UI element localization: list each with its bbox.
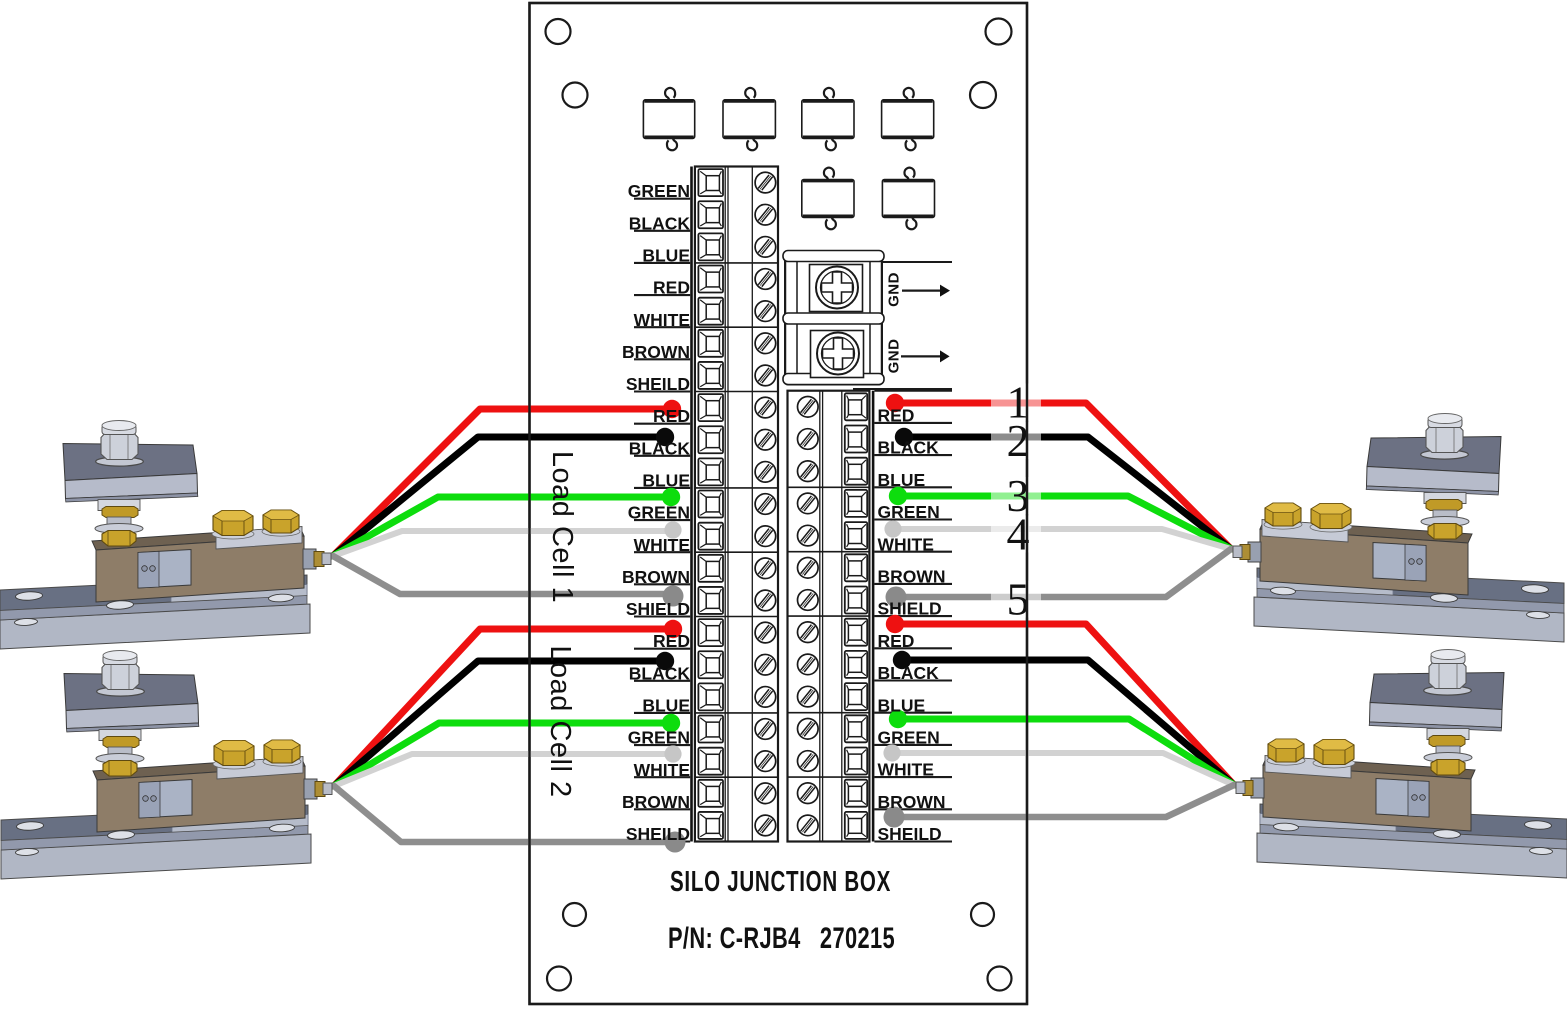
svg-text:BROWN: BROWN [622, 792, 690, 812]
svg-text:RED: RED [653, 631, 690, 651]
node 3 (wire number label) [991, 470, 1041, 521]
wire LC3 red (right) [886, 394, 1231, 549]
label leader lines (right) [874, 391, 952, 842]
terminal TB2-12 (WHITE) [798, 748, 868, 775]
cable gland G5 [802, 168, 854, 230]
wire LC4 black (right) [893, 651, 1234, 785]
mounting hole (bottom-left inner) [563, 903, 586, 926]
terminal TB1-8 (RED) [698, 394, 775, 421]
label Load Cell 1 [546, 451, 578, 603]
svg-text:SHEILD: SHEILD [878, 824, 942, 844]
svg-text:BLACK: BLACK [629, 438, 691, 458]
terminal TB1-5 (WHITE) [698, 298, 775, 325]
terminal TB2-7 (SHIELD) [798, 587, 868, 614]
wire LC2 white (left) [334, 745, 682, 786]
label column bar (left) [690, 167, 693, 842]
svg-text:BROWN: BROWN [622, 342, 690, 362]
wire LC4 red (right) [886, 615, 1234, 785]
mounting hole (top-left outer) [546, 19, 571, 44]
cable gland G3 [802, 88, 854, 150]
node 5 (wire number label) [991, 574, 1041, 625]
node 4 (wire number label) [991, 509, 1041, 560]
wire LC1 white (left) [333, 521, 682, 556]
wire LC1 black (left) [333, 428, 674, 556]
svg-text:SILO JUNCTION BOX: SILO JUNCTION BOX [670, 866, 891, 898]
svg-text:SHEILD: SHEILD [626, 824, 690, 844]
terminal TB1-4 (RED) [698, 266, 775, 293]
label GND (upper earth terminal) [886, 272, 903, 307]
cable gland G2 [723, 88, 775, 150]
svg-text:GND: GND [886, 272, 903, 307]
wire LC3 white (right) [884, 520, 1231, 549]
terminal TB1-15 (RED) [698, 619, 775, 646]
label Load Cell 2 [544, 645, 576, 797]
terminal TB1-21 (SHEILD) [698, 812, 775, 839]
svg-text:GREEN: GREEN [878, 728, 940, 748]
terminal TB2-3 (BLUE) [798, 458, 868, 485]
terminal TB1-10 (BLUE) [698, 458, 775, 485]
terminal TB1-20 (BROWN) [698, 780, 775, 807]
mounting hole (top-right inner) [970, 82, 996, 108]
svg-text:WHITE: WHITE [634, 535, 690, 555]
cable gland G4 [882, 88, 934, 150]
wire LC1 red (left) [333, 400, 681, 556]
mounting hole (bottom-right inner) [971, 903, 994, 926]
load cell 1 (top-left shear beam with mounting plates) [0, 421, 331, 650]
part number P/N: C-RJB4 270215 [668, 922, 895, 955]
svg-text:WHITE: WHITE [878, 534, 934, 554]
svg-text:P/N: C-RJB4 270215: P/N: C-RJB4 270215 [668, 922, 895, 955]
terminal TB2-1 (RED) [798, 393, 868, 420]
svg-text:RED: RED [878, 631, 915, 651]
terminal labels TB1 (left column) [622, 181, 690, 844]
terminal TB1-12 (WHITE) [698, 523, 775, 550]
svg-text:BLACK: BLACK [878, 438, 940, 458]
load cell 3 (top-right shear beam with mounting plates) [1233, 414, 1564, 643]
terminal strip TB1 (left, 21 poles) [695, 167, 778, 842]
svg-text:BLACK: BLACK [878, 663, 940, 683]
svg-text:Load Cell 1: Load Cell 1 [546, 451, 578, 603]
GND row leader lines [853, 262, 952, 389]
svg-text:BLUE: BLUE [878, 695, 926, 715]
wire LC1 green (left) [333, 488, 680, 556]
terminal TB1-1 (GREEN) [698, 169, 775, 196]
svg-text:RED: RED [653, 278, 690, 298]
terminal TB1-13 (BROWN) [698, 555, 775, 582]
label leader lines (left) [634, 199, 690, 842]
terminal TB2-2 (BLACK) [798, 426, 868, 453]
wire LC3 black (right) [895, 428, 1231, 549]
wire LC2 red (left) [334, 620, 682, 786]
mounting hole (top-right outer) [986, 19, 1012, 45]
terminal TB2-11 (GREEN) [798, 715, 868, 742]
terminal TB2-6 (BROWN) [798, 554, 868, 581]
ground arrow (upper) [902, 285, 950, 297]
wire LC2 black (left) [334, 652, 674, 786]
mounting hole (top-left inner) [563, 83, 588, 108]
load cell 4 (bottom-right shear beam with mounting plates) [1236, 650, 1567, 879]
svg-text:GREEN: GREEN [878, 502, 940, 522]
wire LC3 green (right) [889, 487, 1231, 549]
load cell 2 (bottom-left shear beam with mounting plates) [1, 651, 332, 880]
svg-text:GREEN: GREEN [628, 503, 690, 523]
svg-text:BROWN: BROWN [878, 792, 946, 812]
svg-text:WHITE: WHITE [878, 760, 934, 780]
svg-text:Load Cell 2: Load Cell 2 [544, 645, 576, 797]
terminal TB1-16 (BLACK) [698, 651, 775, 678]
terminal TB1-11 (GREEN) [698, 491, 775, 518]
mounting hole (bottom-right outer) [988, 967, 1012, 991]
terminal TB2-9 (BLACK) [798, 651, 868, 678]
terminal TB2-14 (SHEILD) [798, 812, 868, 839]
svg-text:GREEN: GREEN [628, 728, 690, 748]
terminal labels TB2 (right column) [878, 406, 946, 845]
svg-text:BLUE: BLUE [642, 471, 690, 491]
label GND (lower earth terminal) [886, 339, 903, 374]
svg-text:SHIELD: SHIELD [626, 599, 690, 619]
terminal TB1-9 (BLACK) [698, 426, 775, 453]
junction box panel border (over wires) [530, 3, 1028, 1004]
wire LC4 shield (right) [884, 785, 1235, 828]
svg-text:WHITE: WHITE [634, 760, 690, 780]
svg-text:GND: GND [886, 339, 903, 374]
wire LC1 shield (left) [333, 556, 684, 607]
ground terminal block (2x earth screw) [783, 251, 884, 385]
cable gland G6 [882, 168, 934, 230]
wire LC4 green (right) [889, 710, 1234, 785]
wire LC2 green (left) [334, 714, 680, 786]
junction box panel outline [530, 3, 1028, 1004]
terminal TB2-10 (BLUE) [798, 683, 868, 710]
mounting hole (bottom-left outer) [547, 967, 571, 991]
svg-text:BLACK: BLACK [629, 663, 691, 683]
svg-text:SHIELD: SHIELD [878, 599, 942, 619]
terminal TB2-13 (BROWN) [798, 780, 868, 807]
terminal TB1-18 (GREEN) [698, 716, 775, 743]
terminal TB1-2 (BLACK) [698, 201, 775, 228]
terminal TB1-6 (BROWN) [698, 330, 775, 357]
ground arrow (lower) [901, 350, 950, 362]
wire LC2 shield (left) [334, 786, 686, 853]
terminal TB2-4 (GREEN) [798, 490, 868, 517]
terminal TB2-8 (RED) [798, 619, 868, 646]
svg-text:BROWN: BROWN [622, 567, 690, 587]
svg-text:WHITE: WHITE [634, 310, 690, 330]
terminal strip TB2 (right, 14 poles) [788, 391, 870, 842]
svg-text:BLUE: BLUE [878, 470, 926, 490]
terminal TB1-14 (SHIELD) [698, 587, 775, 614]
terminal TB1-7 (SHEILD) [698, 362, 775, 389]
wire LC3 shield (right) [886, 549, 1232, 608]
node 1 (wire number label) [991, 377, 1041, 428]
terminal TB1-3 (BLUE) [698, 233, 775, 260]
wire LC4 white (right) [883, 744, 1234, 785]
terminal TB2-5 (WHITE) [798, 522, 868, 549]
svg-text:RED: RED [653, 406, 690, 426]
svg-text:SHEILD: SHEILD [626, 374, 690, 394]
svg-text:BLUE: BLUE [642, 246, 690, 266]
terminal block group separators TB1 [695, 263, 778, 777]
svg-text:RED: RED [878, 406, 915, 426]
svg-text:GREEN: GREEN [628, 181, 690, 201]
terminal TB1-17 (BLUE) [698, 683, 775, 710]
svg-text:BLACK: BLACK [629, 213, 691, 233]
title SILO JUNCTION BOX [670, 866, 891, 898]
node 2 (wire number label) [991, 415, 1041, 466]
cable gland G1 [643, 88, 694, 150]
label column bar (right) [872, 391, 875, 842]
svg-text:BLUE: BLUE [642, 696, 690, 716]
terminal block group separators TB2 [788, 487, 870, 777]
terminal TB1-19 (WHITE) [698, 748, 775, 775]
svg-text:BROWN: BROWN [878, 567, 946, 587]
